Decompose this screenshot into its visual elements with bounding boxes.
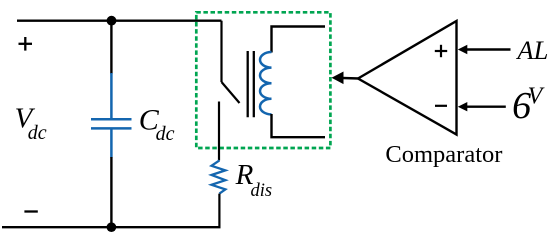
label plus terminal	[19, 37, 33, 51]
node bottom junction	[107, 222, 117, 232]
svg-text:dc: dc	[156, 123, 175, 145]
resistor R_dis	[212, 160, 226, 193]
svg-text:dc: dc	[28, 122, 47, 144]
label minus terminal	[24, 210, 37, 212]
wire coil top stub	[272, 27, 326, 53]
wire comparator output arrow	[343, 77, 360, 80]
wire AL input arrow	[466, 48, 511, 50]
wire bottom bus	[2, 226, 221, 228]
svg-text:V: V	[528, 84, 545, 110]
label minus input	[435, 105, 447, 107]
wire 6V input arrow	[466, 105, 506, 107]
svg-text:Comparator: Comparator	[385, 141, 502, 168]
inductor relay coil	[260, 52, 272, 114]
node top junction	[107, 16, 117, 26]
svg-text:dis: dis	[251, 181, 273, 201]
op-amp comparator triangle	[358, 21, 457, 135]
wire resistor bottom	[218, 194, 220, 228]
wire capacitor branch upper	[110, 21, 112, 74]
green dashed relay box	[196, 12, 330, 148]
wire coil bottom stub	[272, 114, 326, 137]
wire capacitor branch lower	[110, 157, 112, 227]
label plus input	[435, 45, 447, 57]
capacitor C_dc	[91, 73, 132, 158]
relay linkage bars	[247, 51, 249, 117]
switch top contact	[220, 21, 222, 82]
wire top bus	[17, 20, 222, 22]
switch bottom contact wire	[218, 102, 220, 161]
switch arm	[222, 82, 240, 103]
svg-text:AL: AL	[515, 35, 548, 65]
